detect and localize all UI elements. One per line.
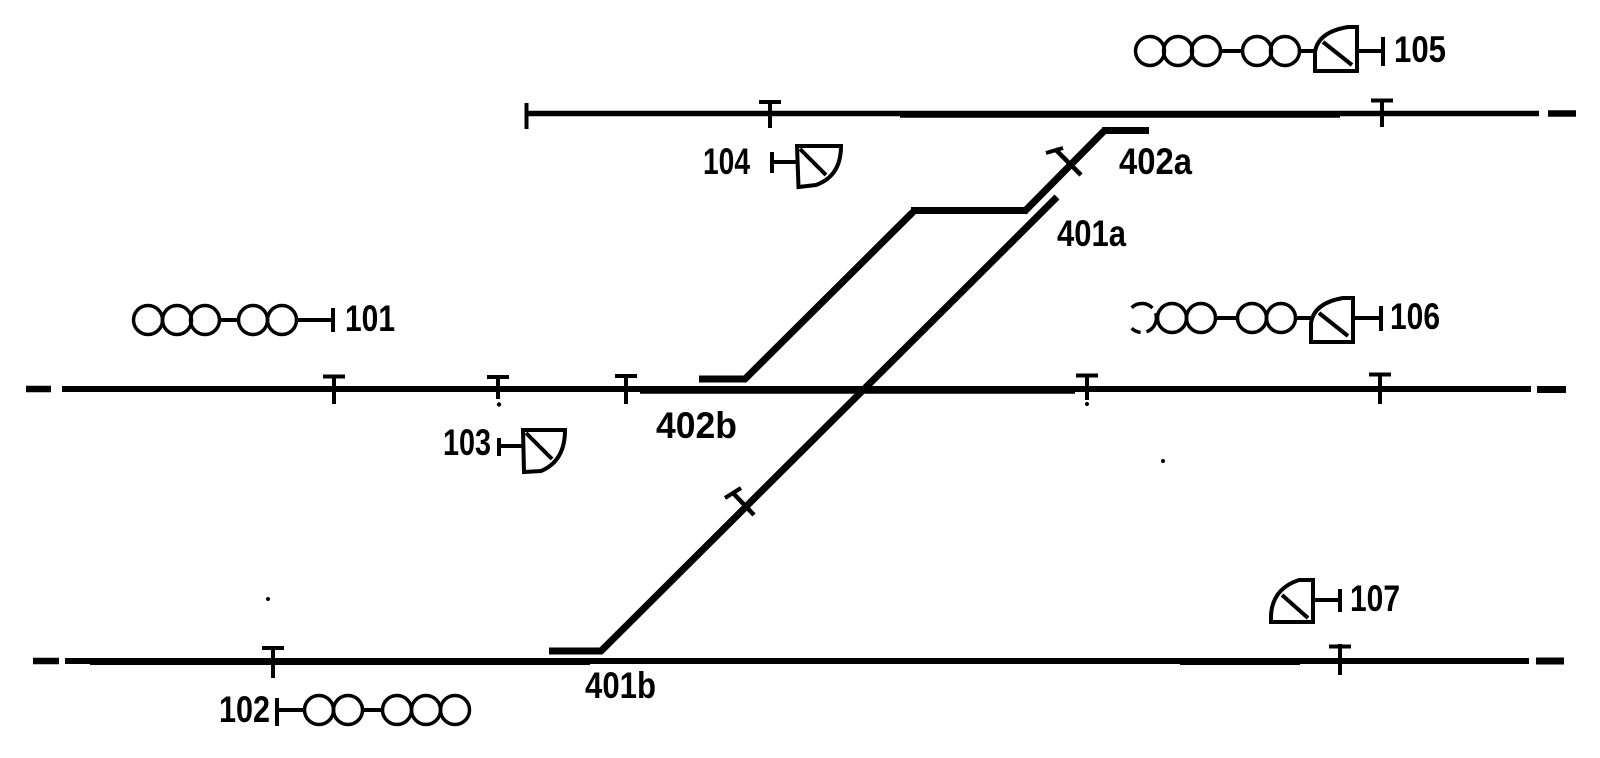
track 1 (top siding) (525, 103, 1576, 129)
joint mark T on track 2 at x=1087 (1076, 374, 1098, 406)
signal 101 (five lamp circles, track 2 left) (134, 306, 334, 335)
crossover 401 (track section 401b-401a) (549, 197, 1057, 652)
svg-text:107: 107 (1350, 578, 1400, 619)
switch tick on 401 diagonal (725, 488, 754, 515)
joint mark T on track 2 at x=334 (323, 375, 345, 404)
signal 103 (semaphore head, below track 2) (499, 430, 565, 472)
svg-text:401a: 401a (1057, 213, 1126, 254)
svg-text:101: 101 (345, 298, 395, 339)
signal 104 (semaphore head, below track 1) (772, 146, 841, 187)
crossover 402 (track section 402b-402a) (699, 131, 1149, 381)
joint mark T on track 3 at x=273 (262, 646, 284, 678)
switch tick X on 402a diagonal (1046, 148, 1081, 175)
signal 102 (five lamp circles, track 3) (277, 696, 470, 727)
svg-text:102: 102 (219, 689, 270, 730)
joint mark T on track 3 at x=1340 (1329, 644, 1351, 675)
stray scan dot left (266, 597, 270, 601)
signal 107 (semaphore head, above track 3) (1271, 580, 1340, 622)
joint mark T on track 1 at x=770 (759, 100, 781, 128)
joint mark T on track 1 at x=1382 (1371, 99, 1393, 127)
svg-text:104: 104 (703, 141, 750, 182)
stray scan dot (1161, 459, 1165, 463)
track 3 (bottom siding) (33, 658, 1564, 665)
track 2 (main line, middle) (26, 389, 1566, 390)
joint mark T on track 2 at x=498 (487, 376, 509, 407)
joint mark T on track 2 at x=626 (615, 375, 637, 404)
svg-text:105: 105 (1394, 29, 1446, 70)
svg-text:106: 106 (1390, 296, 1440, 337)
svg-text:402a: 402a (1119, 141, 1192, 182)
svg-text:103: 103 (443, 422, 491, 463)
signal 105 (five lamps + semaphore head, above track 1) (1136, 37, 1317, 66)
svg-text:401b: 401b (585, 665, 656, 706)
svg-text:402b: 402b (656, 405, 737, 446)
signal 106 (five lamps + semaphore head, above track 2) (1132, 304, 1311, 333)
joint mark T on track 2 at x=1380 (1369, 373, 1391, 404)
